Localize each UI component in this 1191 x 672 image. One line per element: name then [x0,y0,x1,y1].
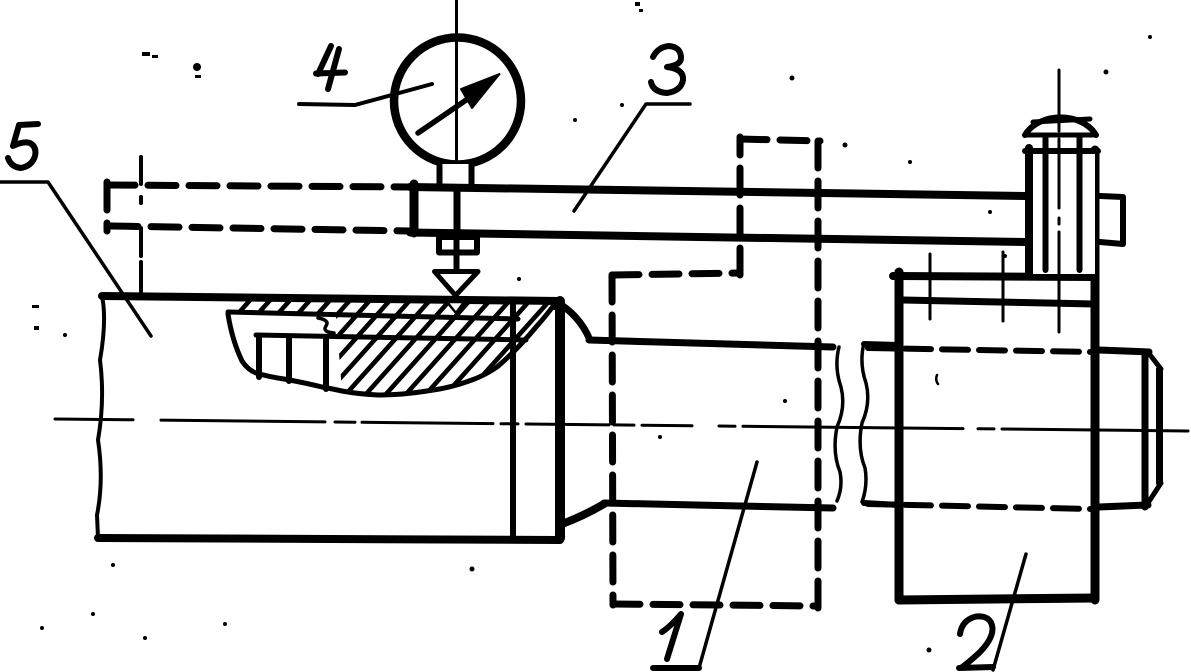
screw shank lines [1046,151,1080,270]
fillet bottom (shaft 5 to journal) [562,504,604,524]
screw axis [1058,70,1061,332]
recess notch verticals [259,336,326,389]
recess notch top edge [256,335,526,340]
shaft end chamfer bottom [1146,483,1161,506]
centerline (horizontal axis of shafts) [55,419,1188,431]
contact notch under probe tip [447,302,464,313]
hidden bar top edge [107,185,410,187]
bracket 2 bottom edge [899,598,1095,600]
label 2 [959,616,993,668]
hidden journal through bracket (dashed) [868,348,1092,352]
holder upper top edge [740,139,820,141]
shaft end right edge [1156,369,1163,483]
bracket 2 cap top edge [893,276,1095,277]
holder top step edge [612,273,740,275]
bar 3 left end cap [410,184,419,233]
shaft 5 top edge [102,296,560,301]
screw head dome [1025,117,1096,135]
cap bolt axis right [1002,252,1005,321]
journal top edge [589,340,833,347]
recess squiggle [318,318,334,333]
cap bolt axis left [929,254,932,319]
leader 3 [574,104,690,211]
bracket 2 body [899,272,1095,600]
indicator spindle in chuck [454,239,460,271]
indicator stem through bar [454,187,461,238]
bar 3 right stub [1100,196,1123,244]
journal right stub bottom edge [864,503,899,505]
indicator axis (vertical centerline) [455,0,458,296]
label 5 [8,124,38,168]
hidden bar bottom edge [110,226,410,231]
break line left [835,347,843,501]
bracket 2 right edge [1091,150,1100,600]
clamp post top edge [1025,148,1098,154]
clamp post left edge [1025,148,1033,274]
leader line for label 4 [299,84,432,105]
needle arrowhead [461,74,500,108]
contact point cone [435,272,479,296]
dashed outline of probe holder 1 [612,137,820,609]
leader 5 [0,182,151,336]
leader 1 [699,462,757,668]
label 1 [653,614,699,668]
shaft 5 left break edge [97,296,104,538]
bracket 2 cap joint line [903,300,1095,304]
indicator neck [438,164,473,186]
shaft 5 inner step line [510,303,516,538]
gauge needle [418,96,472,133]
shaft 5 right end face [555,301,565,538]
recess lens outline [228,302,556,395]
screw head slot [1033,119,1090,122]
leader 2 [993,554,1026,670]
journal bottom edge [604,503,833,508]
dial indicator 4: gauge body [394,38,521,165]
corner loop artifact [552,301,560,309]
label 3 [651,46,683,93]
recess inner line [228,312,518,319]
shaft end cap chamfer edge [1142,352,1149,507]
holder left edge [612,275,613,605]
break line right [860,343,868,502]
left post axis (dash-dot) [139,157,143,299]
screw head base line [1025,133,1096,138]
shaft end cap top edge [1099,350,1149,352]
shaft 5 (large hub) body [97,296,560,540]
bar 3 (solid measuring bar) [410,187,1026,242]
holder right edge [815,141,822,609]
label 4 [316,46,345,89]
bracket 2 left edge [895,272,904,600]
holder upper left edge [737,137,744,275]
dashed extension of bar 3 (hidden position) [107,182,410,231]
clamp post body [1029,148,1095,274]
shaft end chamfer top [1147,351,1161,369]
hidden bar left edge [104,182,111,231]
shaft 5 bottom edge [98,538,560,540]
shaft end cap bottom edge [1099,505,1148,507]
fillet top (shaft 5 to journal) [556,302,590,340]
journal right stub top edge [864,344,899,345]
screw collar [1046,131,1080,151]
indicator chuck block [439,237,477,253]
recess hatching [150,298,652,412]
holder bottom edge [613,604,818,606]
